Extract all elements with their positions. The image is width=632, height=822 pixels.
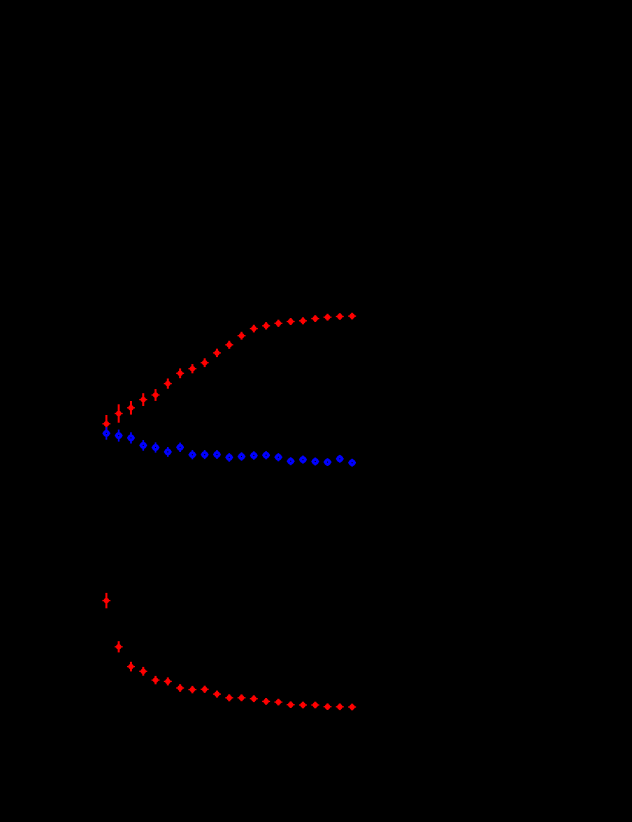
- lower red point 18: filled-circle marker with error bars at (315.2,705.0): [311, 702, 319, 709]
- lower red point 9: filled-circle marker with error bars at (204.7,689.3): [201, 686, 209, 693]
- upper red point 15: filled-circle marker with error bars at (278.4,323.3): [274, 320, 282, 327]
- upper blue point 11: open-circle marker with error bars at (229.2,457.4): [225, 453, 233, 462]
- upper blue point 12: open-circle marker with error bars at (241.5,456.5): [238, 452, 246, 460]
- upper blue point 21: open-circle marker with error bars at (352.1,462.7): [348, 459, 356, 467]
- lower red point 21: filled-circle marker with error bars at (352.1,707.0): [348, 704, 356, 711]
- upper blue point 20: open-circle marker with error bars at (339.8,458.8): [336, 455, 344, 463]
- upper red point 14: filled-circle marker with error bars at (266.1,325.8): [262, 322, 270, 329]
- upper blue point 14: open-circle marker with error bars at (266.1,455.2): [262, 451, 270, 459]
- upper blue point 3: open-circle marker with error bars at (131.0,437.9): [127, 432, 135, 443]
- lower red point 16: filled-circle marker with error bars at (290.7,704.7): [287, 701, 295, 708]
- upper blue point 6: open-circle marker with error bars at (167.8,451.9): [164, 447, 172, 457]
- lower red point 15: filled-circle marker with error bars at (278.4,702.1): [274, 699, 282, 706]
- lower red point 4: filled-circle marker with error bars at (143.3,671.3): [139, 667, 147, 676]
- upper red point 3: filled-circle marker with error bars at (131.0,407.8): [127, 401, 135, 415]
- upper red point 12: filled-circle marker with error bars at (241.5,335.7): [238, 332, 246, 340]
- upper red point 13: filled-circle marker with error bars at (253.8,328.6): [250, 325, 258, 333]
- upper blue point 4: open-circle marker with error bars at (143.3,445.4): [139, 440, 147, 451]
- upper panel: blue open-circle data series (slowly falling): [103, 427, 357, 467]
- lower red point 19: filled-circle marker with error bars at (327.5,706.7): [324, 703, 332, 710]
- upper red point 17: filled-circle marker with error bars at (303.0,320.8): [299, 317, 307, 324]
- upper red point 1: filled-circle marker with error bars at (106.4,423.8): [102, 415, 110, 433]
- lower red point 6: filled-circle marker with error bars at (167.8,681.4): [164, 677, 172, 685]
- upper red point 16: filled-circle marker with error bars at (290.7,321.5): [287, 318, 295, 325]
- upper blue point 10: open-circle marker with error bars at (217.0,454.5): [213, 450, 221, 459]
- upper blue point 17: open-circle marker with error bars at (303.0,459.6): [299, 456, 307, 464]
- upper blue point 15: open-circle marker with error bars at (278.4,457.2): [274, 453, 282, 461]
- upper blue point 2: open-circle marker with error bars at (118.7,435.6): [115, 430, 123, 442]
- upper red point 8: filled-circle marker with error bars at (192.4,368.7): [188, 364, 196, 373]
- upper blue point 7: open-circle marker with error bars at (180.1,447.3): [176, 443, 184, 452]
- upper red point 10: filled-circle marker with error bars at (217.0,352.9): [213, 349, 221, 357]
- upper blue point 19: open-circle marker with error bars at (327.5,462.1): [324, 458, 332, 466]
- lower red point 13: filled-circle marker with error bars at (253.8,698.7): [250, 695, 258, 702]
- upper blue point 13: open-circle marker with error bars at (253.8,455.5): [250, 451, 258, 459]
- lower red point 11: filled-circle marker with error bars at (229.2,697.8): [225, 694, 233, 701]
- upper blue point 16: open-circle marker with error bars at (290.7,461.2): [287, 457, 295, 465]
- lower red point 2: filled-circle marker with error bars at (118.7,646.8): [115, 641, 123, 652]
- lower red point 3: filled-circle marker with error bars at (131.0,666.6): [127, 662, 135, 672]
- upper red point 6: filled-circle marker with error bars at (167.8,383.6): [164, 379, 172, 389]
- upper red point 7: filled-circle marker with error bars at (180.1,373.3): [176, 368, 184, 378]
- lower red point 10: filled-circle marker with error bars at (217.0,694.1): [213, 691, 221, 698]
- lower red point 17: filled-circle marker with error bars at (303.0,705.0): [299, 702, 307, 709]
- upper blue point 18: open-circle marker with error bars at (315.2,461.5): [311, 458, 319, 466]
- upper blue point 5: open-circle marker with error bars at (155.5,447.5): [152, 442, 160, 452]
- upper red point 19: filled-circle marker with error bars at (327.5,317.2): [324, 314, 332, 321]
- upper red point 20: filled-circle marker with error bars at (339.8,316.5): [336, 313, 344, 320]
- lower red point 8: filled-circle marker with error bars at (192.4,689.6): [188, 686, 196, 693]
- lower red point 5: filled-circle marker with error bars at (155.5,680.1): [152, 676, 160, 684]
- lower red point 1: filled-circle marker with error bars at (106.4,600.6): [102, 593, 110, 608]
- upper red point 9: filled-circle marker with error bars at (204.7,362.7): [201, 358, 209, 367]
- upper blue point 1: open-circle marker with error bars at (106.4,433.4): [103, 427, 111, 440]
- lower red point 12: filled-circle marker with error bars at (241.5,697.8): [238, 694, 246, 701]
- lower red point 14: filled-circle marker with error bars at (266.1,701.4): [262, 698, 270, 705]
- upper red point 5: filled-circle marker with error bars at (155.5,395.0): [152, 389, 160, 401]
- upper blue point 9: open-circle marker with error bars at (204.7,454.6): [201, 450, 209, 459]
- lower red point 7: filled-circle marker with error bars at (180.1,688.0): [176, 684, 184, 692]
- upper red point 21: filled-circle marker with error bars at (352.1,316.1): [348, 313, 356, 320]
- upper red point 4: filled-circle marker with error bars at (143.3,399.6): [139, 393, 147, 406]
- upper red point 2: filled-circle marker with error bars at (118.7,413.5): [115, 404, 123, 422]
- lower panel: red filled-circle data series (steeply falling): [102, 593, 356, 710]
- upper blue point 8: open-circle marker with error bars at (192.4,454.7): [189, 450, 197, 459]
- lower red point 20: filled-circle marker with error bars at (339.8,706.8): [336, 704, 344, 711]
- upper red point 11: filled-circle marker with error bars at (229.2,344.8): [225, 341, 233, 349]
- upper panel: red filled-circle data series (rising, saturating): [102, 313, 356, 433]
- upper red point 18: filled-circle marker with error bars at (315.2,318.6): [311, 315, 319, 322]
